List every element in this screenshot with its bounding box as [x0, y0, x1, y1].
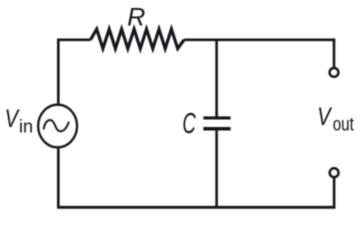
wire: top-left lead from source to resistor [58, 40, 90, 104]
capacitor C top plate [203, 116, 230, 119]
wire: bottom rail [57, 206, 335, 209]
capacitor C bottom plate [203, 127, 230, 131]
svg-text:V: V [317, 103, 332, 131]
svg-text:in: in [19, 117, 33, 137]
source V_in (AC) [38, 105, 77, 147]
svg-text:R: R [127, 3, 145, 31]
node: output terminal top (open circle) [330, 68, 339, 77]
resistor R [91, 29, 185, 48]
svg-text:V: V [5, 105, 20, 133]
node: output terminal bottom (open circle) [330, 168, 339, 177]
wire: bottom-right rise to output terminal [333, 178, 336, 209]
source V_in sine symbol [44, 120, 69, 131]
wire: left vertical below source [57, 147, 60, 207]
wire: top-right drop to output terminal [333, 39, 336, 68]
wire: top from resistor to output node [184, 38, 335, 41]
wire: capacitor top lead [215, 40, 218, 117]
svg-text:C: C [182, 108, 196, 140]
svg-text:out: out [333, 113, 354, 135]
wire: capacitor bottom lead [215, 130, 218, 207]
